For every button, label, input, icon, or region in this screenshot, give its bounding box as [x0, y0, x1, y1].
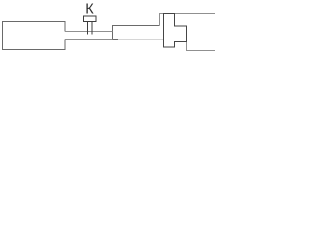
svg-text:К: К	[85, 1, 94, 17]
